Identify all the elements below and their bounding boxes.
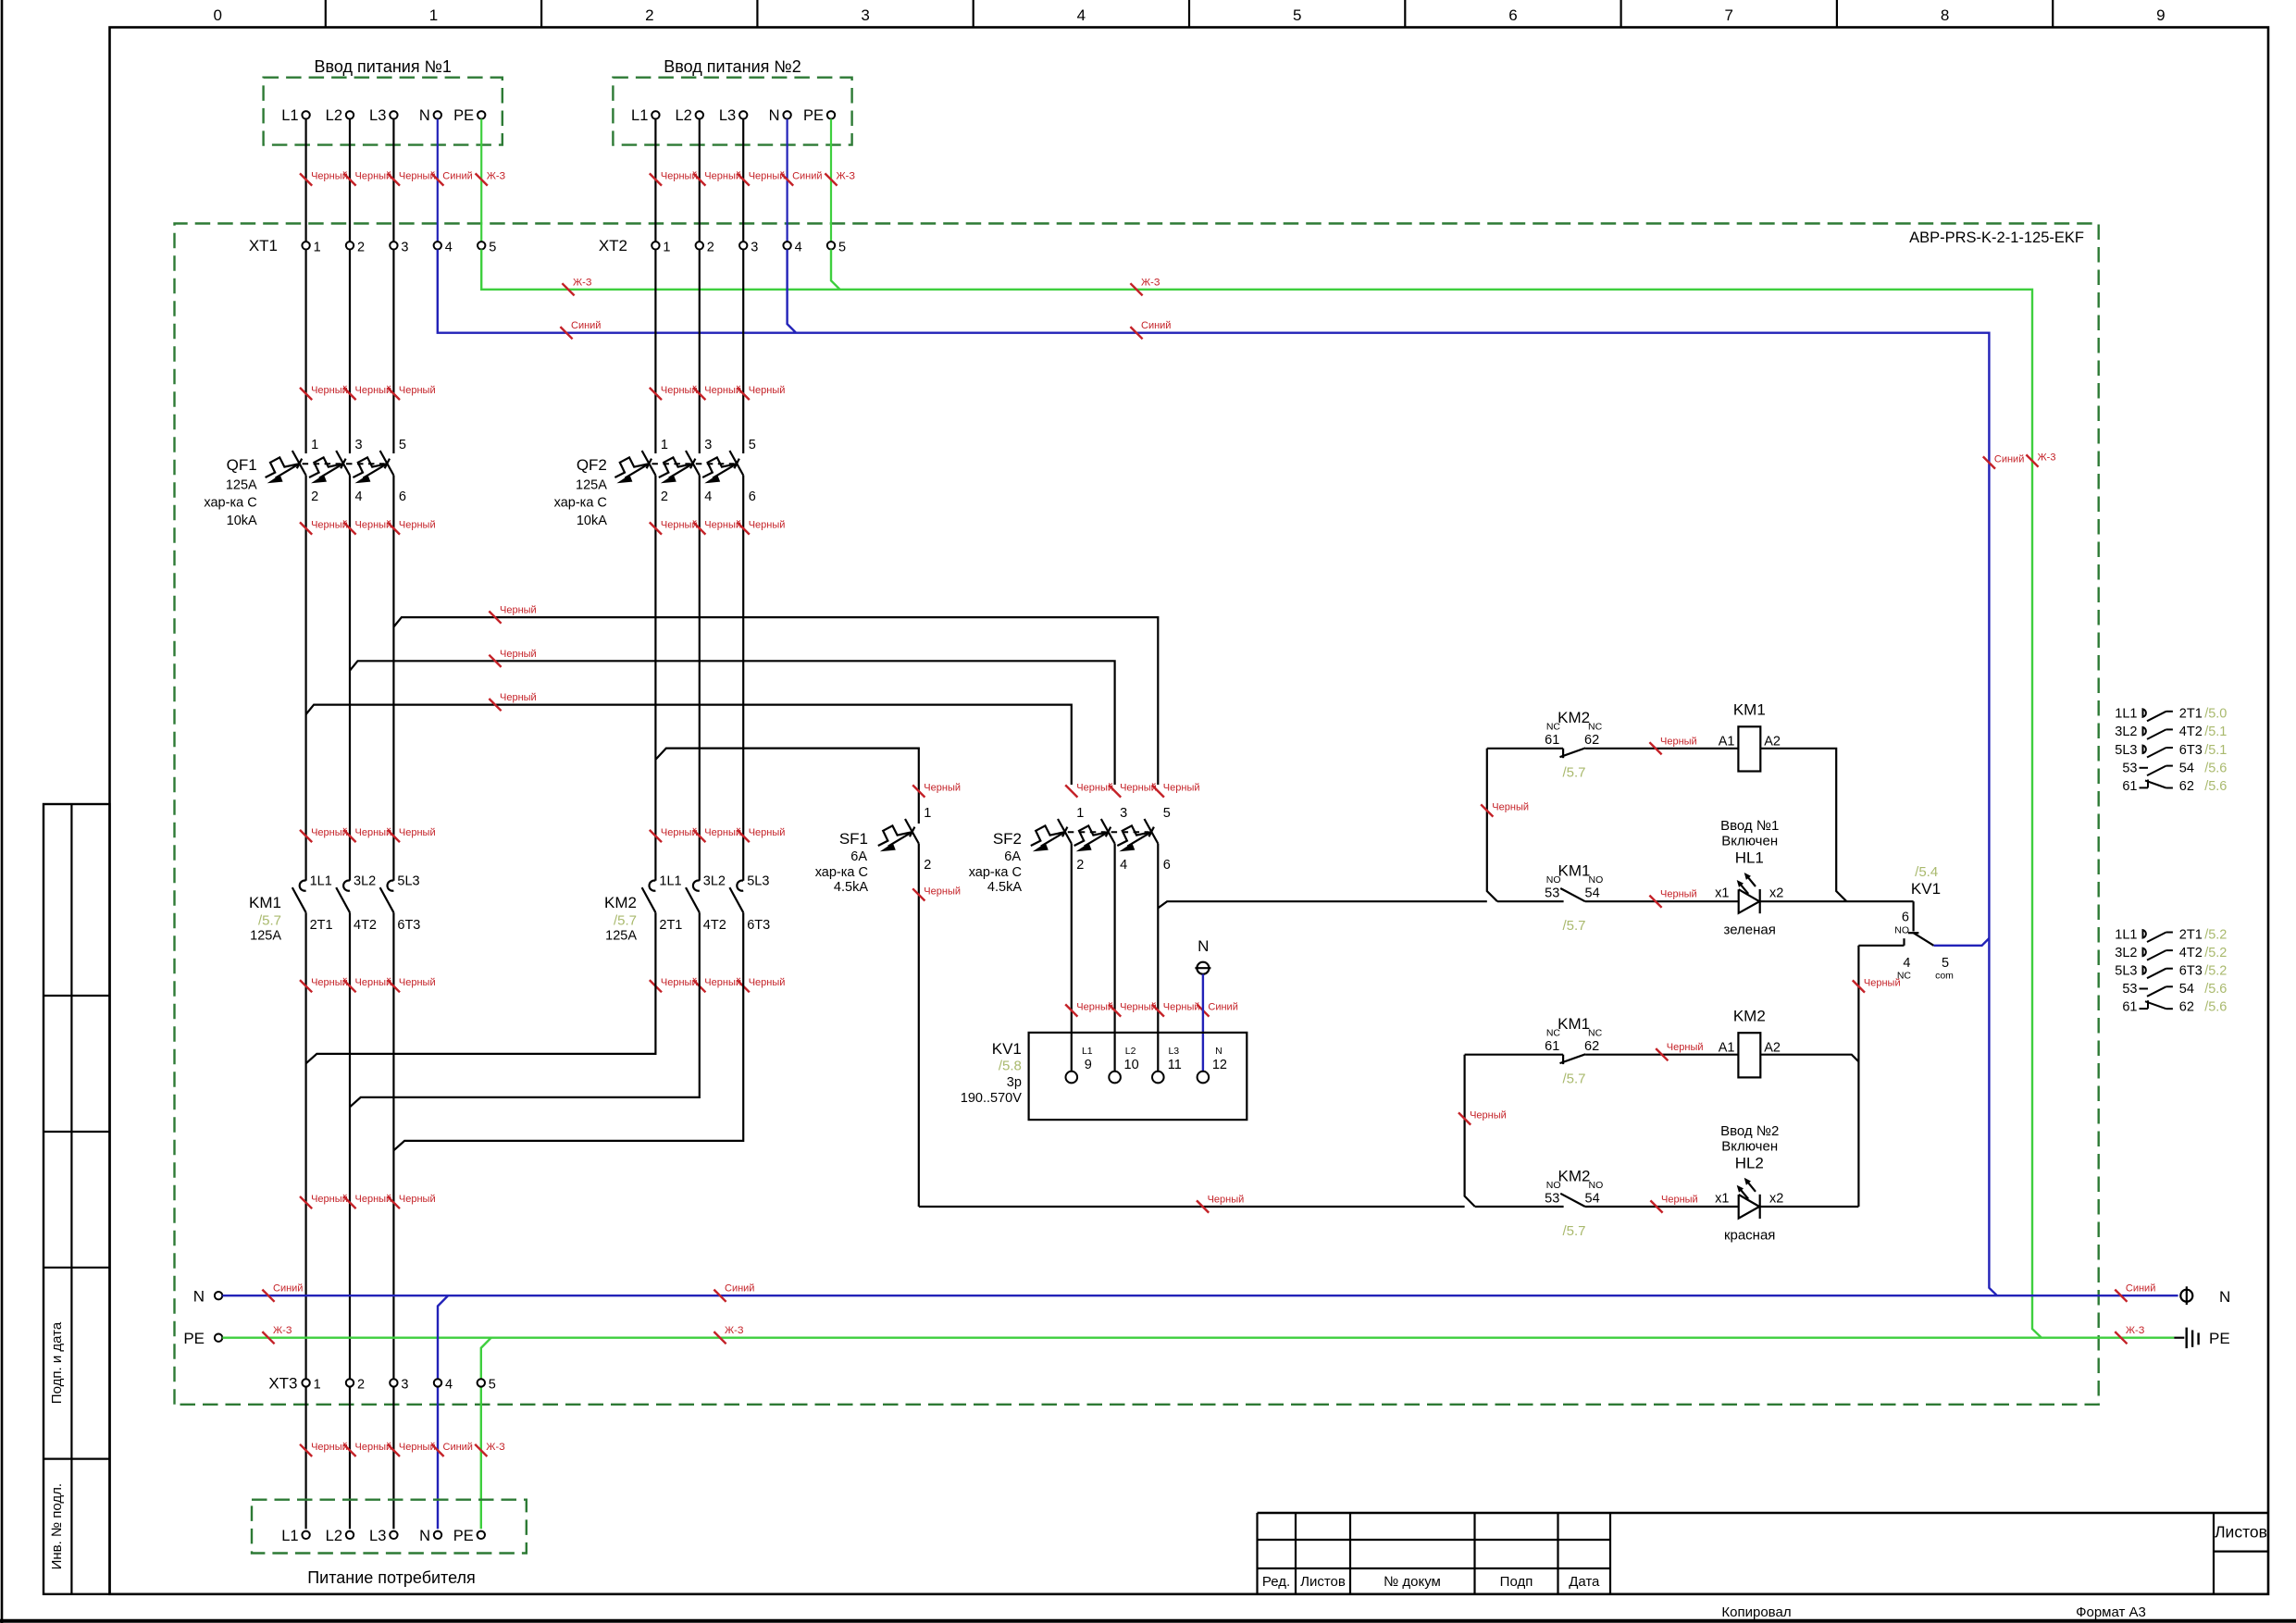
wire colour labels feeder2 <box>650 173 662 185</box>
svg-text:2T1: 2T1 <box>2179 707 2203 722</box>
svg-text:Черный: Черный <box>661 171 698 182</box>
svg-text:4: 4 <box>1120 858 1127 873</box>
svg-text:1: 1 <box>663 241 670 255</box>
page left edge line <box>1 0 4 1623</box>
svg-text:4: 4 <box>795 241 802 255</box>
svg-text:Черный: Черный <box>749 520 786 531</box>
svg-text:L2: L2 <box>675 107 691 124</box>
svg-text:NC: NC <box>1588 722 1603 733</box>
svg-text:A2: A2 <box>1764 1041 1781 1056</box>
circuit breaker QF2 (3-pole) <box>642 451 656 476</box>
svg-text:x1: x1 <box>1715 1191 1729 1206</box>
svg-text:x2: x2 <box>1769 886 1783 901</box>
svg-text:Листов: Листов <box>1300 1574 1346 1590</box>
svg-text:A2: A2 <box>1764 735 1781 750</box>
svg-text:5: 5 <box>838 241 846 255</box>
svg-text:53: 53 <box>2122 982 2137 997</box>
wire colour labels below QF1 <box>300 522 312 534</box>
wires XT1 to QF1 <box>305 250 307 454</box>
row B wire <box>1497 900 1564 902</box>
svg-text:Черный: Черный <box>1660 736 1697 747</box>
svg-text:x2: x2 <box>1769 1191 1783 1206</box>
svg-text:6T3: 6T3 <box>397 918 420 933</box>
svg-text:Ж-З: Ж-З <box>725 1325 744 1336</box>
wire colour label above SF1 <box>912 785 925 797</box>
svg-text:XT1: XT1 <box>249 237 278 254</box>
svg-text:Ввод №1: Ввод №1 <box>1720 818 1779 834</box>
svg-text:Черный: Черный <box>1076 783 1113 794</box>
svg-text:5: 5 <box>489 241 496 255</box>
svg-text:62: 62 <box>2179 1000 2194 1015</box>
svg-text:/5.7: /5.7 <box>1562 1072 1585 1087</box>
svg-text:N: N <box>1198 937 1209 955</box>
svg-text:0: 0 <box>213 6 221 24</box>
svg-text:Черный: Черный <box>355 1442 392 1453</box>
N bus colour labels <box>560 327 572 339</box>
KV1 terminals 9-12 <box>1066 1072 1078 1084</box>
PE bus wire (green) from XT1-5 to right side <box>481 250 2042 1338</box>
svg-text:KM2: KM2 <box>1733 1008 1766 1025</box>
colour label on KV1-4 drop <box>1853 980 1865 992</box>
svg-text:Черный: Черный <box>924 783 961 794</box>
colour label on riser A-B <box>1481 804 1493 816</box>
svg-text:Черный: Черный <box>749 385 786 396</box>
svg-text:A1: A1 <box>1719 735 1735 750</box>
svg-text:10: 10 <box>1124 1058 1139 1072</box>
svg-text:125A: 125A <box>576 478 607 493</box>
svg-text:/5.6: /5.6 <box>2204 982 2227 997</box>
Листов box <box>2213 1513 2215 1594</box>
svg-text:6А: 6А <box>850 849 867 864</box>
svg-text:2: 2 <box>357 241 365 255</box>
svg-text:QF1: QF1 <box>227 456 257 474</box>
svg-text:Синий: Синий <box>1141 320 1171 331</box>
svg-text:Черный: Черный <box>661 520 698 531</box>
svg-text:L1: L1 <box>281 1528 298 1544</box>
svg-text:Ж-З: Ж-З <box>487 171 506 182</box>
PE bus to output (green) <box>222 1336 2174 1338</box>
row D wire contacts to HL2 <box>1475 1206 1564 1208</box>
svg-text:Черный: Черный <box>399 1194 436 1205</box>
svg-text:7: 7 <box>1724 6 1732 24</box>
svg-text:Черный: Черный <box>355 520 392 531</box>
cross bus colour labels <box>489 612 501 624</box>
wire QF1-4 to SF2 pole3 (middle cross bus) <box>350 661 1115 785</box>
svg-text:SF2: SF2 <box>993 830 1022 848</box>
svg-text:L2: L2 <box>326 107 342 124</box>
relay contact KV1 6-NO / 4-NC / 5-com <box>1913 901 1915 931</box>
N bus wire (blue) from XT1-4 to right side <box>438 250 1997 1296</box>
svg-text:Черный: Черный <box>749 827 786 838</box>
svg-text:Черный: Черный <box>1076 1002 1113 1013</box>
svg-text:KM2: KM2 <box>1558 1167 1591 1184</box>
svg-text:/5.1: /5.1 <box>2204 743 2227 758</box>
svg-text:Черный: Черный <box>355 1194 392 1205</box>
svg-text:3L2: 3L2 <box>354 874 376 889</box>
svg-text:N: N <box>769 107 780 124</box>
svg-text:Черный: Черный <box>749 977 786 988</box>
svg-text:3: 3 <box>704 438 712 452</box>
svg-text:N: N <box>1215 1046 1222 1057</box>
svg-text:54: 54 <box>1585 886 1600 901</box>
svg-text:L3: L3 <box>369 1528 386 1544</box>
svg-text:Черный: Черный <box>1470 1110 1507 1121</box>
svg-text:4T2: 4T2 <box>703 918 726 933</box>
svg-text:5: 5 <box>1293 6 1301 24</box>
svg-text:Черный: Черный <box>399 827 436 838</box>
svg-text:Черный: Черный <box>661 977 698 988</box>
row B colour label <box>1649 896 1661 908</box>
svg-text:2: 2 <box>311 489 318 504</box>
svg-text:Черный: Черный <box>749 171 786 182</box>
svg-text:Ред.: Ред. <box>1262 1574 1290 1590</box>
svg-text:Синий: Синий <box>442 171 472 182</box>
svg-text:L1: L1 <box>281 107 298 124</box>
svg-text:Черный: Черный <box>1208 1195 1245 1206</box>
svg-text:190..570V: 190..570V <box>961 1091 1022 1106</box>
wire KM2-2T1 joining KM1-2T1 column <box>306 912 656 1063</box>
svg-text:L2: L2 <box>326 1528 342 1544</box>
svg-text:Черный: Черный <box>924 886 961 897</box>
svg-text:KM1: KM1 <box>1733 701 1766 719</box>
svg-text:62: 62 <box>1584 733 1599 748</box>
svg-text:L1: L1 <box>1082 1046 1093 1057</box>
row D colour label (left) <box>1197 1200 1209 1212</box>
svg-text:5L3: 5L3 <box>2115 964 2137 979</box>
svg-text:/5.6: /5.6 <box>2204 1000 2227 1015</box>
svg-text:3: 3 <box>401 1378 408 1393</box>
svg-text:XT2: XT2 <box>599 237 627 254</box>
wire QF1-6 to SF2 pole5 (upper cross bus) <box>393 617 1158 785</box>
svg-text:KM1: KM1 <box>1558 862 1591 880</box>
svg-text:53: 53 <box>1545 1191 1559 1206</box>
svg-text:5: 5 <box>1942 956 1949 971</box>
svg-text:Черный: Черный <box>399 520 436 531</box>
title block grid <box>1258 1512 2269 1514</box>
svg-text:61: 61 <box>2122 779 2137 794</box>
svg-text:Черный: Черный <box>311 1442 348 1453</box>
wire colour labels below KM2 contacts <box>650 980 662 992</box>
wire colour labels below QF2 <box>650 522 662 534</box>
enclosure dashed box АВР-PRS-K-2-1-125-EKF <box>175 224 2099 1405</box>
svg-text:№ докум: № докум <box>1384 1574 1441 1590</box>
svg-text:Черный: Черный <box>311 520 348 531</box>
svg-text:3L2: 3L2 <box>2115 725 2137 739</box>
svg-text:3L2: 3L2 <box>2115 946 2137 960</box>
svg-text:KM1: KM1 <box>249 894 281 911</box>
wires feeder1 to XT1 <box>305 119 307 242</box>
svg-text:4: 4 <box>445 1378 453 1393</box>
svg-text:Синий: Синий <box>273 1283 303 1295</box>
svg-text:1L1: 1L1 <box>310 874 332 889</box>
svg-text:Черный: Черный <box>355 385 392 396</box>
svg-text:хар-ка C: хар-ка C <box>204 496 256 511</box>
svg-text:/5.4: /5.4 <box>1915 864 1938 880</box>
svg-text:6: 6 <box>1902 911 1909 925</box>
svg-text:Ж-3: Ж-3 <box>2038 452 2056 464</box>
svg-text:3: 3 <box>401 241 408 255</box>
contact KM2 NC 61-62 <box>1562 749 1564 758</box>
svg-text:Черный: Черный <box>704 520 741 531</box>
PE output earth symbol <box>2174 1337 2184 1339</box>
svg-text:Черный: Черный <box>399 171 436 182</box>
indicator lamp HL2 (red LED) <box>1739 1195 1760 1219</box>
svg-text:5: 5 <box>1163 806 1171 821</box>
PE bus colour labels <box>262 1332 274 1344</box>
svg-text:NO: NO <box>1589 1180 1604 1191</box>
svg-text:NC: NC <box>1588 1028 1603 1039</box>
svg-text:/5.2: /5.2 <box>2204 964 2227 979</box>
svg-text:5: 5 <box>749 438 756 452</box>
svg-text:6: 6 <box>1163 858 1171 873</box>
svg-text:1: 1 <box>314 1378 321 1393</box>
wire colour labels above XT3 <box>300 1196 312 1208</box>
svg-text:Синий: Синий <box>725 1283 754 1295</box>
svg-text:6: 6 <box>1508 6 1517 24</box>
svg-text:10kA: 10kA <box>577 514 607 528</box>
wire QF1-2 to SF2 pole1 (lower cross bus) <box>306 705 1072 785</box>
left riser rows C-D <box>1465 1055 1475 1207</box>
svg-text:1L1: 1L1 <box>659 874 681 889</box>
svg-text:12: 12 <box>1212 1058 1227 1072</box>
svg-text:Ж-З: Ж-З <box>573 277 592 288</box>
wire colour labels above KV1 box <box>1065 1004 1077 1016</box>
svg-text:5: 5 <box>489 1378 496 1393</box>
svg-text:Черный: Черный <box>311 1194 348 1205</box>
svg-text:Черный: Черный <box>500 649 537 660</box>
svg-text:KV1: KV1 <box>1911 880 1941 898</box>
svg-text:1: 1 <box>924 806 931 821</box>
svg-text:L2: L2 <box>1125 1046 1136 1057</box>
svg-text:KM2: KM2 <box>604 894 637 911</box>
svg-text:N: N <box>419 107 430 124</box>
indicator lamp HL1 (green LED) <box>1739 889 1760 913</box>
svg-text:4T2: 4T2 <box>2179 725 2203 739</box>
svg-text:Черный: Черный <box>1120 783 1157 794</box>
svg-text:2: 2 <box>924 858 931 873</box>
svg-text:Синий: Синий <box>571 320 601 331</box>
svg-text:62: 62 <box>1584 1039 1599 1054</box>
wire colour labels below XT3 <box>300 1444 312 1456</box>
svg-text:/5.6: /5.6 <box>2204 779 2227 794</box>
svg-text:PE: PE <box>803 107 824 124</box>
svg-text:Черный: Черный <box>355 977 392 988</box>
svg-text:Черный: Черный <box>311 827 348 838</box>
svg-text:Листов: Листов <box>2215 1523 2267 1542</box>
svg-text:АВР-PRS-K-2-1-125-EKF: АВР-PRS-K-2-1-125-EKF <box>1909 229 2084 246</box>
svg-text:QF2: QF2 <box>577 456 607 474</box>
wires feeder2 to XT2 <box>654 119 656 242</box>
circuit breaker SF2 (3-pole, 6A) <box>1058 819 1072 844</box>
colour label on riser C-D <box>1458 1112 1471 1124</box>
wire colour labels above SF2 <box>1065 785 1077 797</box>
svg-text:NO: NO <box>1589 874 1604 886</box>
svg-text:53: 53 <box>2122 761 2137 775</box>
row D colour label (right) <box>1650 1200 1662 1212</box>
svg-text:com: com <box>1935 971 1954 982</box>
svg-text:3p: 3p <box>1007 1075 1022 1090</box>
svg-text:1: 1 <box>429 6 438 24</box>
contact KM2 NO 53-54 <box>1560 1194 1585 1207</box>
contactor coil KM1 <box>1738 726 1760 771</box>
svg-text:Включен: Включен <box>1721 1138 1778 1154</box>
svg-text:4T2: 4T2 <box>354 918 377 933</box>
svg-text:Черный: Черный <box>355 171 392 182</box>
input feeder box Ввод питания №1 (dashed) <box>264 78 503 145</box>
svg-text:/5.7: /5.7 <box>1562 1223 1585 1239</box>
svg-text:2: 2 <box>645 6 653 24</box>
wires SF2 outputs down to KV1 <box>1071 844 1073 1072</box>
svg-text:2: 2 <box>1076 858 1084 873</box>
svg-text:SF1: SF1 <box>839 830 868 848</box>
svg-text:1: 1 <box>311 438 318 452</box>
svg-text:Черный: Черный <box>661 827 698 838</box>
wire colour labels above QF1 <box>300 388 312 400</box>
svg-text:1: 1 <box>1076 806 1084 821</box>
svg-text:Черный: Черный <box>1667 1042 1704 1053</box>
svg-text:4: 4 <box>445 241 453 255</box>
svg-text:KM2: KM2 <box>1558 709 1590 726</box>
consumer box Питание потребителя (dashed) <box>252 1500 527 1554</box>
svg-text:Черный: Черный <box>311 977 348 988</box>
svg-text:Черный: Черный <box>1163 1002 1200 1013</box>
svg-text:Ж-З: Ж-З <box>2126 1325 2145 1336</box>
svg-text:8: 8 <box>1941 6 1949 24</box>
row C wire <box>1465 1054 1564 1056</box>
wire N tap to KV1-12 (blue) <box>1202 974 1204 1072</box>
N jog from XT2-4 <box>788 250 797 333</box>
svg-text:1L1: 1L1 <box>2115 927 2137 942</box>
svg-text:2T1: 2T1 <box>310 918 333 933</box>
wires QF2 outputs down to KM2 contacts <box>654 476 656 881</box>
svg-text:L3: L3 <box>369 107 386 124</box>
svg-text:Копировал: Копировал <box>1721 1604 1791 1620</box>
svg-text:Черный: Черный <box>500 605 537 616</box>
svg-text:5L3: 5L3 <box>2115 743 2137 758</box>
svg-text:/5.0: /5.0 <box>2204 707 2227 722</box>
svg-text:/5.6: /5.6 <box>2204 761 2227 775</box>
svg-text:N: N <box>2219 1288 2230 1306</box>
svg-text:Черный: Черный <box>704 385 741 396</box>
svg-text:Синий: Синий <box>792 171 822 182</box>
svg-text:125A: 125A <box>250 929 281 944</box>
svg-text:3: 3 <box>355 438 363 452</box>
svg-text:Черный: Черный <box>1660 889 1697 900</box>
wires QF1 outputs down to KM1 contacts <box>305 476 307 881</box>
svg-text:Черный: Черный <box>661 385 698 396</box>
svg-text:3L2: 3L2 <box>703 874 726 889</box>
svg-text:3: 3 <box>751 241 758 255</box>
wires XT2 to QF2 <box>654 250 656 454</box>
svg-text:красная: красная <box>1724 1227 1776 1243</box>
svg-text:/5.7: /5.7 <box>1562 765 1585 781</box>
N drop to XT3-4 (blue) <box>438 1295 448 1529</box>
svg-text:61: 61 <box>1545 733 1559 748</box>
svg-text:Ж-З: Ж-З <box>837 171 856 182</box>
svg-text:N: N <box>193 1288 205 1306</box>
svg-text:/5.2: /5.2 <box>2204 927 2227 942</box>
svg-text:Формат А3: Формат А3 <box>2076 1604 2146 1620</box>
svg-text:1: 1 <box>314 241 321 255</box>
ruler column ticks <box>325 0 327 28</box>
wire KM2-6T3 joining KM1-6T3 column <box>393 912 743 1150</box>
svg-text:Ж-З: Ж-З <box>486 1442 505 1453</box>
contact KM1 NO 53-54 <box>1560 888 1585 901</box>
circuit breaker QF1 (3-pole) <box>292 451 306 476</box>
branch SF2-6 to control row B <box>1158 901 1487 908</box>
svg-text:9: 9 <box>2156 6 2165 24</box>
svg-text:2: 2 <box>661 489 668 504</box>
svg-text:Черный: Черный <box>704 977 741 988</box>
svg-text:A1: A1 <box>1719 1041 1735 1056</box>
svg-text:/5.1: /5.1 <box>2204 725 2227 739</box>
svg-text:3: 3 <box>861 6 869 24</box>
PE bus colour labels <box>562 283 574 295</box>
svg-text:5L3: 5L3 <box>397 874 419 889</box>
svg-text:зеленая: зеленая <box>1723 923 1775 938</box>
svg-text:2T1: 2T1 <box>2179 927 2203 942</box>
svg-text:4T2: 4T2 <box>2179 946 2203 960</box>
svg-text:Черный: Черный <box>1492 802 1529 813</box>
N bus to output (blue) <box>222 1295 2178 1296</box>
contactor KM2 main contacts <box>650 881 656 891</box>
svg-text:6T3: 6T3 <box>747 918 770 933</box>
svg-text:61: 61 <box>2122 1000 2137 1015</box>
svg-text:11: 11 <box>1168 1058 1182 1072</box>
svg-text:HL1: HL1 <box>1735 849 1764 867</box>
svg-text:4.5kA: 4.5kA <box>834 880 868 895</box>
svg-text:L1: L1 <box>631 107 648 124</box>
svg-text:KV1: KV1 <box>992 1040 1022 1058</box>
wires XT3 to consumer terminals <box>305 1387 307 1530</box>
wire KM1 coil A2 down to row B <box>1760 749 1846 901</box>
svg-text:Синий: Синий <box>1994 454 2024 465</box>
svg-text:Включен: Включен <box>1721 834 1778 849</box>
svg-text:Черный: Черный <box>704 827 741 838</box>
svg-text:L3: L3 <box>719 107 736 124</box>
row A colour label <box>1649 742 1661 754</box>
svg-text:Ж-З: Ж-З <box>273 1325 292 1336</box>
wire colour labels below KM1 contacts <box>300 980 312 992</box>
svg-text:2: 2 <box>707 241 714 255</box>
svg-text:N: N <box>419 1528 430 1544</box>
svg-text:54: 54 <box>1585 1191 1600 1206</box>
svg-text:61: 61 <box>1545 1039 1559 1054</box>
svg-text:x1: x1 <box>1715 886 1729 901</box>
wire KV1-5 com to N riser (blue) <box>1934 938 1990 946</box>
left riser rows A-B <box>1487 749 1497 901</box>
svg-text:5L3: 5L3 <box>747 874 769 889</box>
svg-text:PE: PE <box>183 1330 205 1347</box>
svg-text:6T3: 6T3 <box>2179 964 2203 979</box>
contactor coil KM2 <box>1738 1033 1760 1077</box>
svg-text:Черный: Черный <box>500 692 537 703</box>
svg-text:6А: 6А <box>1004 849 1021 864</box>
svg-text:125A: 125A <box>605 929 637 944</box>
contact KM1 NC 61-62 <box>1562 1055 1564 1064</box>
svg-text:Черный: Черный <box>399 1442 436 1453</box>
svg-text:хар-ка C: хар-ка C <box>815 865 868 880</box>
svg-text:6: 6 <box>399 489 406 504</box>
svg-text:6: 6 <box>749 489 756 504</box>
svg-text:4.5kA: 4.5kA <box>987 880 1022 895</box>
wire QF2-2 to SF1 (control feed) <box>655 749 918 824</box>
page bottom edge line <box>0 1619 2296 1623</box>
svg-text:Дата: Дата <box>1569 1574 1600 1590</box>
svg-text:4: 4 <box>1903 956 1910 971</box>
wire KV1-4 down to row D corner <box>1857 946 1859 1207</box>
input feeder box Ввод питания №2 (dashed) <box>613 78 851 145</box>
